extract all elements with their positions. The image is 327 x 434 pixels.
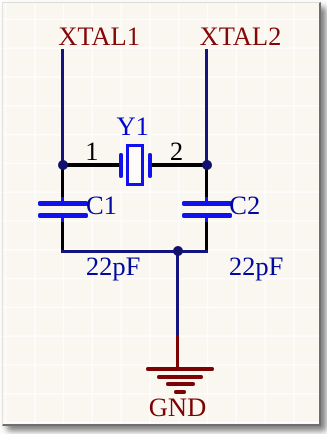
pin of C1 top — [61, 165, 64, 197]
pin of C2 top — [205, 165, 208, 197]
net label XTAL1 — [58, 23, 140, 50]
wire from XTAL1 down to node — [61, 49, 65, 165]
junction left node — [58, 160, 68, 170]
pin 2 of Y1 — [152, 163, 206, 166]
capacitor C2 — [205, 197, 209, 202]
value 22pF of C2 — [229, 253, 284, 280]
wire from XTAL2 down to node — [205, 49, 209, 165]
net label XTAL2 — [200, 23, 282, 50]
pin of C1 bottom — [61, 222, 64, 250]
value 22pF of C1 — [86, 253, 141, 280]
capacitor C1 — [61, 197, 65, 202]
pin 1 of Y1 — [64, 163, 119, 166]
pin number 2 — [170, 138, 183, 165]
junction right node — [202, 160, 212, 170]
designator Y1 — [117, 113, 149, 140]
designator C2 — [229, 192, 260, 219]
wire from bottom node down to ground — [176, 251, 180, 335]
pin of C2 bottom — [205, 222, 208, 250]
ground symbol — [176, 335, 180, 369]
power net label GND — [149, 394, 206, 421]
bottom wire between C1 and C2 — [61, 250, 209, 254]
designator C1 — [86, 192, 117, 219]
crystal Y1 body — [126, 144, 144, 186]
pin number 1 — [85, 138, 98, 165]
junction bottom node — [173, 246, 183, 256]
